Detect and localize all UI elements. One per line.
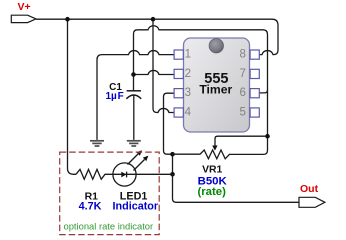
pin box 6 — [250, 89, 259, 98]
svg-text:V+: V+ — [18, 1, 31, 13]
capacitor C1 top plate — [127, 90, 141, 92]
svg-text:optional rate indicator: optional rate indicator — [64, 220, 154, 231]
wire between junctions — [172, 154, 174, 174]
svg-text:Indicator: Indicator — [113, 200, 159, 212]
node junction dot OUT/VR1 — [170, 152, 175, 157]
potentiometer VR1 zigzag — [173, 136, 268, 159]
pin box 4 — [174, 108, 183, 117]
svg-text:5: 5 — [239, 107, 245, 119]
LED1 cathode bar — [126, 172, 128, 178]
node junction dot pin2/C1 — [131, 72, 136, 77]
svg-text:1µ F: 1µ F — [106, 91, 124, 102]
wire junction down to Out connector — [173, 174, 300, 202]
node junction dot V+/pin4 branch — [151, 17, 156, 22]
svg-text:8: 8 — [239, 49, 245, 61]
svg-text:Timer: Timer — [199, 82, 232, 96]
node junction dot OUT/LED — [170, 172, 175, 177]
svg-text:4.7K: 4.7K — [79, 200, 102, 212]
svg-text:6: 6 — [239, 87, 245, 99]
IC U1 dimple — [209, 39, 223, 53]
wire pin 3 OUT down to VR1/LED node — [164, 93, 175, 154]
svg-text:7: 7 — [239, 68, 245, 80]
pin box 1 — [174, 50, 183, 59]
pin box 7 — [250, 69, 259, 78]
pin box 3 — [174, 89, 183, 98]
LED1 circle — [113, 163, 136, 186]
svg-text:VR1: VR1 — [202, 164, 222, 175]
svg-text:1: 1 — [185, 49, 191, 61]
LED1 arrow 1 — [128, 154, 139, 165]
wire C1 to ground — [133, 95, 135, 140]
LED1 diode triangle — [121, 172, 126, 178]
connector tag Out — [299, 197, 325, 207]
LED1 arrow 2 — [134, 160, 145, 171]
pin box 5 — [250, 108, 259, 117]
node junction dot VR1 wiper — [265, 134, 270, 139]
wire V+ top rail to pin 8 (corner at x278) — [36, 19, 278, 54]
svg-text:4: 4 — [185, 107, 192, 119]
pin box 8 — [250, 50, 259, 59]
wire pin 1 GND to ground (hops over C1 and pin4 verticals) — [97, 51, 174, 140]
ground symbol (pin 1) — [90, 141, 104, 146]
capacitor C1 bottom curved plate — [126, 95, 141, 99]
pin box 2 — [174, 69, 183, 78]
ground symbol (C1) — [127, 141, 141, 146]
wire pin 6 stub to wrap net — [259, 90, 267, 93]
VR1 wiper arrowhead — [212, 146, 217, 151]
VR1 wiper wire — [215, 136, 268, 146]
wire pin 6 THR wrap-around to pin2/C1 net (hop over pin4 vertical) — [134, 26, 268, 136]
op-amp/IC U1 555 timer body — [184, 38, 250, 132]
wire pin 2 TRIG to C1 node (hop over pin4 vertical) — [134, 70, 175, 74]
svg-text:2: 2 — [185, 68, 191, 80]
wire V+ branch down to R1 — [68, 19, 77, 174]
annotation dashed box optional rate indicator — [60, 152, 160, 235]
node junction dot V+/R1 branch — [65, 17, 70, 22]
wire LED to junction — [113, 173, 173, 175]
wire V+ branch down to pin 4 RESET (hop over pin3 wire) — [153, 19, 174, 112]
connector tag V+ — [11, 15, 36, 22]
svg-text:3: 3 — [185, 87, 191, 99]
svg-text:(rate): (rate) — [197, 186, 226, 198]
resistor R1 zigzag — [76, 169, 113, 179]
svg-text:Out: Out — [300, 183, 319, 195]
